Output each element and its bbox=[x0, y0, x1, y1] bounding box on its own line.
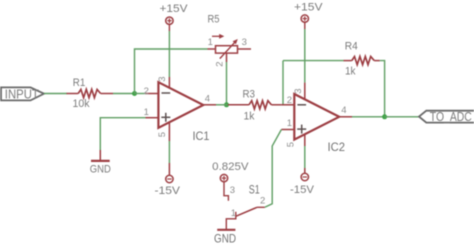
svg-text:2: 2 bbox=[215, 61, 226, 66]
potentiometer R5 bbox=[208, 34, 252, 62]
wire INPUT to R1 bbox=[44, 93, 67, 95]
svg-text:R3: R3 bbox=[243, 89, 256, 101]
svg-text:IC1: IC1 bbox=[193, 129, 210, 143]
ground GND (IC1 input) bbox=[90, 150, 111, 176]
resistor R1 bbox=[67, 89, 114, 97]
svg-text:GND: GND bbox=[214, 231, 236, 245]
node junction IC2 output/R4 bbox=[382, 114, 387, 119]
svg-text:5: 5 bbox=[285, 142, 296, 147]
svg-text:4: 4 bbox=[341, 105, 346, 116]
svg-text:0.825V: 0.825V bbox=[212, 161, 249, 173]
switch S1 bbox=[224, 182, 265, 230]
svg-text:5: 5 bbox=[157, 132, 168, 137]
resistor R3 bbox=[228, 101, 281, 109]
svg-text:3: 3 bbox=[157, 76, 168, 81]
svg-text:1: 1 bbox=[144, 107, 149, 118]
wire +15V to IC1 pin3 bbox=[168, 31, 170, 77]
svg-text:1: 1 bbox=[208, 37, 213, 48]
wire junction to TO_ADC bbox=[385, 116, 419, 118]
svg-text:2: 2 bbox=[287, 95, 292, 106]
svg-text:S1: S1 bbox=[249, 182, 260, 196]
power -15V P4 bbox=[290, 168, 315, 196]
svg-text:-15V: -15V bbox=[155, 185, 181, 197]
wire R5 wiper down to IC1 output bbox=[226, 62, 228, 105]
svg-text:+15V: +15V bbox=[294, 2, 323, 14]
wire junction up and across to R5 pin1 bbox=[135, 49, 208, 94]
wire junction to IC1 pin2 bbox=[135, 93, 147, 95]
svg-text:-15V: -15V bbox=[290, 184, 315, 196]
power +15V P1 bbox=[160, 3, 189, 31]
wire IC1 pin5 to -15V bbox=[168, 141, 170, 163]
power +15V P3 bbox=[294, 2, 323, 29]
wire S1 pin2 to IC2 pin1 bbox=[265, 130, 282, 208]
svg-text:10k: 10k bbox=[73, 98, 90, 110]
svg-text:+15V: +15V bbox=[160, 3, 189, 15]
op-amp IC1 bbox=[146, 77, 217, 141]
wire R1 to junction bbox=[113, 93, 135, 95]
wire IC2 pin5 to -15V bbox=[304, 146, 306, 168]
svg-text:4: 4 bbox=[205, 93, 210, 104]
svg-text:3: 3 bbox=[293, 89, 304, 94]
wire IC2 pin2 feedback up bbox=[282, 61, 284, 105]
node junction R1/IC1 pin2 bbox=[132, 91, 137, 96]
svg-text:1k: 1k bbox=[244, 111, 255, 123]
wire IC2 pin4 to junction bbox=[352, 116, 385, 118]
wire IC1 pin1 to GND bbox=[100, 118, 145, 150]
ground GND (S1) bbox=[214, 230, 236, 245]
svg-text:IC2: IC2 bbox=[328, 140, 346, 154]
svg-text:3: 3 bbox=[230, 185, 235, 196]
svg-text:TO_ADC: TO_ADC bbox=[430, 109, 472, 124]
svg-text:1: 1 bbox=[287, 118, 292, 129]
power -15V P2 bbox=[155, 163, 181, 197]
net flag INPUT bbox=[1, 87, 44, 102]
svg-text:GND: GND bbox=[90, 164, 111, 176]
svg-text:3: 3 bbox=[242, 37, 247, 48]
svg-text:R5: R5 bbox=[208, 13, 220, 25]
svg-text:2: 2 bbox=[260, 196, 265, 207]
node junction IC1 output/R5 wiper bbox=[224, 102, 229, 107]
svg-text:INPUT: INPUT bbox=[5, 87, 39, 102]
wire feedback across to R4 bbox=[283, 60, 344, 62]
svg-text:R4: R4 bbox=[345, 41, 358, 53]
resistor R4 bbox=[344, 57, 380, 65]
svg-text:2: 2 bbox=[144, 86, 149, 97]
svg-text:R1: R1 bbox=[73, 77, 86, 89]
wire +15V to IC2 pin3 bbox=[304, 29, 306, 83]
power supply 0.825V P5 bbox=[212, 161, 249, 182]
op-amp IC2 bbox=[281, 83, 352, 146]
wire R4 down to IC2 output bbox=[380, 61, 385, 117]
net flag TO_ADC bbox=[419, 109, 474, 124]
wire IC1 pin4 to R3 bbox=[216, 104, 229, 106]
svg-text:1k: 1k bbox=[345, 66, 356, 78]
svg-text:1: 1 bbox=[231, 208, 236, 219]
